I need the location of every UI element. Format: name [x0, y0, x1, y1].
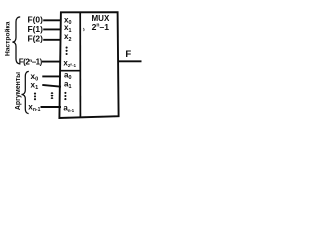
- vertical dots in box (x group): [66, 47, 68, 56]
- vertical dots in box (a group): [64, 92, 66, 100]
- wire F(0) to x0: [43, 19, 61, 21]
- wire F(2^n-1) to x_2^n-1: [42, 61, 61, 63]
- pin-label column divider: [79, 12, 81, 117]
- svg-text:F(1): F(1): [28, 24, 44, 34]
- vertical dots wire channel (a group): [51, 92, 54, 99]
- svg-text:2n–1: 2n–1: [92, 22, 110, 32]
- wire x0 to a0: [42, 75, 61, 77]
- wire F(1) to x1: [43, 28, 61, 30]
- section separator line: [61, 70, 80, 72]
- wire x_n-1 to a_n-1: [41, 106, 62, 108]
- brace for settings group: [12, 17, 20, 64]
- svg-text:Аргументы: Аргументы: [15, 72, 22, 110]
- svg-text:F: F: [125, 49, 131, 60]
- brace for arguments group: [22, 71, 29, 113]
- vertical dots outer argument labels: [34, 93, 36, 101]
- svg-text:F(2): F(2): [28, 33, 44, 43]
- wire x1 to a1: [42, 85, 61, 87]
- svg-text:Настройка: Настройка: [3, 21, 11, 56]
- MUX box outline U1: [59, 12, 118, 118]
- wire F(2) to x2: [43, 39, 61, 41]
- output wire F: [118, 60, 141, 62]
- scan speck near divider: [82, 28, 85, 31]
